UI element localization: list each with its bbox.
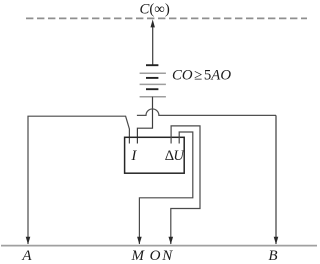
- svg-text:N: N: [161, 248, 173, 264]
- wire: down lead to B: [275, 115, 277, 244]
- svg-text:ΔU: ΔU: [165, 148, 186, 164]
- arrow at M: [137, 237, 142, 245]
- wire: outer loop from box to N: [171, 126, 200, 244]
- svg-text:A: A: [21, 248, 32, 264]
- arrow at N: [169, 237, 174, 245]
- wire: left loop from box top-left to A: [28, 116, 129, 244]
- instrument box: [125, 137, 185, 173]
- arrow at B: [274, 237, 279, 245]
- arrow at A: [26, 237, 31, 245]
- ground surface line: [1, 245, 317, 247]
- svg-text:I: I: [130, 148, 137, 164]
- svg-text:CO≥5AO: CO≥5AO: [172, 68, 231, 84]
- svg-text:M: M: [130, 248, 145, 264]
- svg-text:B: B: [268, 248, 277, 264]
- wire: battery bottom lead, jog left into box top: [137, 97, 152, 144]
- node C: infinity reference dashed line: [26, 17, 307, 19]
- svg-text:C(∞): C(∞): [140, 1, 170, 17]
- svg-text:O: O: [150, 248, 161, 264]
- wire: lead from battery top toward C with up arrow: [152, 27, 154, 65]
- battery C0 (electrode stack): [140, 65, 166, 97]
- wire: inner loop from box to M: [139, 132, 192, 244]
- wire: horizontal with hop over battery lead, running right: [137, 109, 276, 115]
